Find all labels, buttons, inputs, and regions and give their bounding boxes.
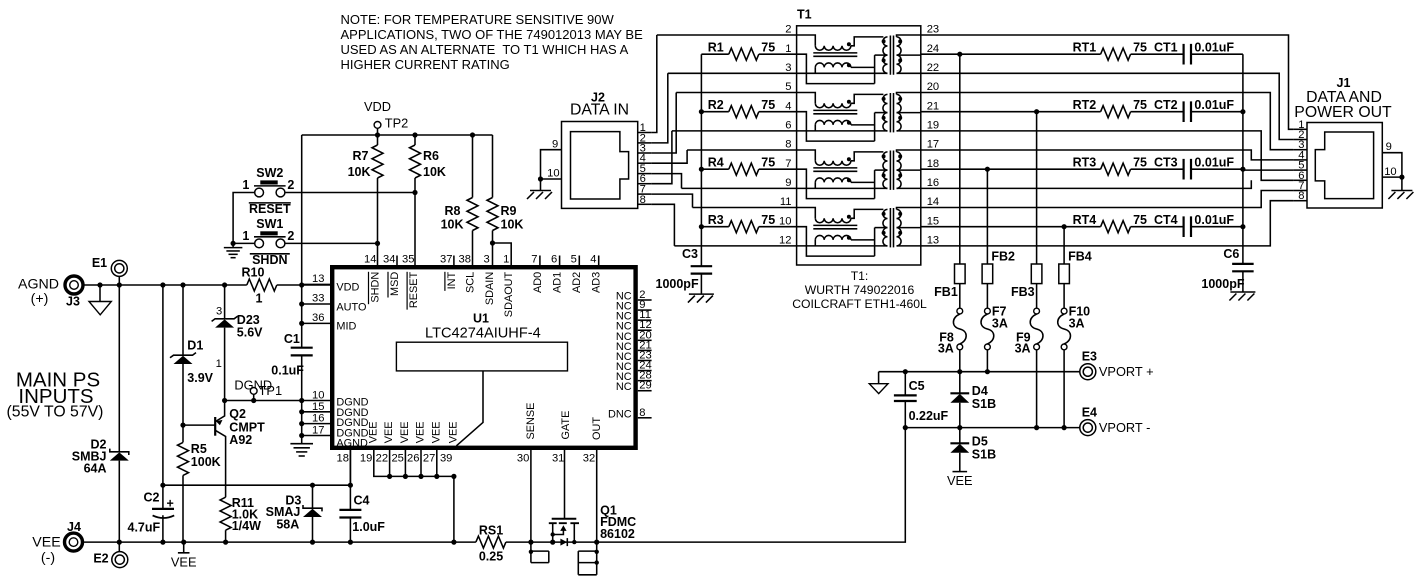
terminal E3 VPORT+ xyxy=(1080,364,1096,380)
svg-text:16: 16 xyxy=(312,413,324,425)
svg-text:1: 1 xyxy=(256,292,263,306)
svg-text:GATE: GATE xyxy=(560,411,572,440)
svg-text:17: 17 xyxy=(927,139,939,151)
svg-text:58A: 58A xyxy=(276,518,299,532)
svg-text:AGND: AGND xyxy=(18,277,59,293)
svg-text:0.01uF: 0.01uF xyxy=(1194,98,1234,112)
svg-text:0.01uF: 0.01uF xyxy=(1194,156,1234,170)
svg-text:1000pF: 1000pF xyxy=(656,277,699,291)
svg-text:18: 18 xyxy=(927,158,939,170)
wire AGND bus xyxy=(83,284,330,286)
ground chassis at C6 xyxy=(1230,291,1255,293)
ferrite bead FB1 xyxy=(959,54,961,308)
svg-text:INT: INT xyxy=(446,271,458,289)
resistor R1 75 xyxy=(701,53,796,55)
svg-text:10K: 10K xyxy=(348,165,371,179)
svg-text:0.01uF: 0.01uF xyxy=(1194,41,1234,55)
svg-text:SHDN: SHDN xyxy=(252,253,287,267)
svg-text:R6: R6 xyxy=(423,149,439,163)
svg-text:R1: R1 xyxy=(708,41,724,55)
wire R9 to SDAOUT pin1 xyxy=(493,243,512,265)
wire J2 pin2 to T1 pin3 row xyxy=(651,73,796,143)
switch SW1 SHDN xyxy=(255,239,264,248)
svg-text:AGND: AGND xyxy=(336,438,368,450)
capacitor C1 xyxy=(301,323,303,400)
svg-text:15: 15 xyxy=(312,401,324,413)
svg-text:5: 5 xyxy=(571,254,577,266)
svg-text:U1: U1 xyxy=(473,312,489,326)
svg-text:D5: D5 xyxy=(972,434,988,448)
svg-text:POWER OUT: POWER OUT xyxy=(1294,104,1392,121)
resistor R5 xyxy=(182,425,184,542)
svg-text:10K: 10K xyxy=(423,165,446,179)
svg-text:12: 12 xyxy=(779,235,791,247)
svg-text:C3: C3 xyxy=(682,247,698,261)
svg-text:21: 21 xyxy=(927,100,939,112)
svg-text:S1B: S1B xyxy=(972,397,996,411)
svg-text:AD0: AD0 xyxy=(532,272,544,293)
svg-text:6: 6 xyxy=(551,254,557,266)
wire pin18 to C4 node xyxy=(349,450,351,485)
svg-text:FB1: FB1 xyxy=(934,285,958,299)
Q1 source pins bracket xyxy=(531,542,549,563)
svg-text:75: 75 xyxy=(761,41,775,55)
svg-text:17: 17 xyxy=(312,425,324,437)
svg-text:SDAOUT: SDAOUT xyxy=(503,271,515,317)
svg-text:11: 11 xyxy=(780,196,792,208)
svg-text:RT4: RT4 xyxy=(1073,213,1097,227)
connector J3 AGND input xyxy=(65,276,83,294)
svg-text:19: 19 xyxy=(360,453,372,465)
svg-text:38: 38 xyxy=(459,254,471,266)
ic U1 left pins DGND AGND xyxy=(302,400,330,402)
svg-text:C5: C5 xyxy=(909,379,925,393)
resistor RT2 75 xyxy=(921,111,1184,113)
svg-text:9: 9 xyxy=(785,177,791,189)
connector J2 pins 9 10 shield xyxy=(541,150,562,190)
svg-text:VEE: VEE xyxy=(415,422,427,444)
svg-text:10: 10 xyxy=(547,168,559,180)
svg-text:3A: 3A xyxy=(1015,341,1031,355)
svg-text:1: 1 xyxy=(242,178,249,192)
svg-text:SCL: SCL xyxy=(465,272,477,293)
svg-text:TP1: TP1 xyxy=(259,383,282,398)
connector J1 pins 9 10 shield xyxy=(1382,153,1402,191)
svg-text:MSD: MSD xyxy=(389,272,401,296)
svg-text:7: 7 xyxy=(531,254,537,266)
svg-text:1000pF: 1000pF xyxy=(1201,277,1244,291)
wire J2 pin6 to T1 pin6 row xyxy=(651,131,796,184)
terminal E1 xyxy=(111,260,127,276)
svg-text:C2: C2 xyxy=(144,491,160,505)
svg-text:0.25: 0.25 xyxy=(479,549,503,563)
svg-text:33: 33 xyxy=(312,293,324,305)
svg-text:C6: C6 xyxy=(1223,247,1239,261)
svg-text:6: 6 xyxy=(785,120,791,132)
ferrite bead FB3 xyxy=(1036,112,1038,309)
resistor R3 75 xyxy=(701,226,796,228)
transformer T1 winding unit 2 xyxy=(797,93,921,142)
resistor R2 75 xyxy=(701,111,796,113)
diode D2 TVS xyxy=(118,285,120,542)
wire CT3 row to J1 pin5 xyxy=(1243,169,1294,171)
resistor R9 10K xyxy=(492,135,494,265)
svg-text:RESET: RESET xyxy=(249,202,291,216)
resistor R4 75 xyxy=(701,168,796,170)
diode D1 zener xyxy=(182,285,184,425)
svg-text:(55V TO 57V): (55V TO 57V) xyxy=(7,404,104,421)
wire VEE bus xyxy=(83,541,553,543)
svg-text:23: 23 xyxy=(927,24,939,36)
svg-text:RS1: RS1 xyxy=(479,524,503,538)
svg-text:R4: R4 xyxy=(708,156,724,170)
body diode of Q1 xyxy=(553,541,597,543)
svg-text:SW2: SW2 xyxy=(256,166,283,180)
capacitor CT1 0.01uF xyxy=(1184,44,1191,65)
wire J2 pin5 to T1 pin9 row xyxy=(651,174,796,189)
resistor R6 10K xyxy=(414,135,416,265)
svg-text:5: 5 xyxy=(785,81,791,93)
svg-text:SHDN: SHDN xyxy=(369,272,381,303)
svg-text:R9: R9 xyxy=(501,204,517,218)
svg-text:1.0uF: 1.0uF xyxy=(352,520,385,534)
wire SW2 pin2 to R6 xyxy=(285,192,415,194)
resistor R8 10K xyxy=(472,135,474,265)
svg-text:CT4: CT4 xyxy=(1154,213,1178,227)
svg-text:USED AS AN ALTERNATE TO T1 WH: USED AS AN ALTERNATE TO T1 WHICH HAS A xyxy=(341,42,629,57)
svg-text:39: 39 xyxy=(440,453,452,465)
svg-text:75: 75 xyxy=(1133,213,1147,227)
svg-text:NC: NC xyxy=(616,381,632,393)
ferrite bead FB4 xyxy=(1063,227,1065,309)
wire SW pin1 common xyxy=(233,193,255,244)
wire pin30 SENSE xyxy=(530,450,532,542)
svg-text:VDD: VDD xyxy=(364,99,391,114)
svg-text:Q2: Q2 xyxy=(229,407,246,421)
svg-text:AD1: AD1 xyxy=(552,272,564,293)
svg-text:3: 3 xyxy=(483,254,489,266)
wire T1 right rows to J1 xyxy=(921,35,1294,129)
resistor R10 xyxy=(247,279,277,291)
svg-text:13: 13 xyxy=(927,235,939,247)
svg-text:2: 2 xyxy=(287,178,294,192)
ferrite bead FB2 xyxy=(986,169,988,308)
svg-text:4: 4 xyxy=(785,100,791,112)
svg-text:75: 75 xyxy=(761,213,775,227)
svg-text:1: 1 xyxy=(242,229,249,243)
svg-text:SENSE: SENSE xyxy=(525,403,537,440)
svg-text:7: 7 xyxy=(785,158,791,170)
svg-text:(-): (-) xyxy=(41,550,55,566)
transistor Q1 MOSFET xyxy=(552,518,577,520)
power VEE symbol xyxy=(178,542,190,553)
wire J2 pin7 to T1 pin11 row xyxy=(651,194,796,207)
svg-text:25: 25 xyxy=(391,453,403,465)
svg-text:14: 14 xyxy=(364,254,376,266)
svg-text:3: 3 xyxy=(216,305,222,317)
svg-text:RESET: RESET xyxy=(408,271,420,308)
ground chassis at C3 xyxy=(689,293,714,295)
svg-text:20: 20 xyxy=(927,81,939,93)
capacitor CT4 0.01uF xyxy=(1184,216,1191,237)
svg-text:VEE: VEE xyxy=(447,422,459,444)
svg-text:NOTE: FOR TEMPERATURE SENSITIV: NOTE: FOR TEMPERATURE SENSITIVE 90W xyxy=(341,12,615,27)
svg-text:HIGHER CURRENT RATING: HIGHER CURRENT RATING xyxy=(341,57,510,72)
svg-text:31: 31 xyxy=(552,453,564,465)
svg-text:3A: 3A xyxy=(992,316,1008,330)
capacitor C4 xyxy=(349,450,351,542)
capacitor CT3 0.01uF xyxy=(1184,159,1191,180)
svg-text:86102: 86102 xyxy=(600,527,635,541)
svg-text:R7: R7 xyxy=(353,149,369,163)
svg-text:10: 10 xyxy=(779,215,791,227)
ground at U1 AGND xyxy=(290,443,313,445)
capacitor CT2 0.01uF xyxy=(1184,101,1191,122)
svg-text:AD2: AD2 xyxy=(571,272,583,293)
wire VEE pins to bus xyxy=(374,450,454,542)
svg-text:2: 2 xyxy=(287,229,294,243)
switch SW2 RESET xyxy=(255,188,264,197)
svg-text:APPLICATIONS, TWO OF THE 74901: APPLICATIONS, TWO OF THE 749012013 MAY B… xyxy=(341,27,644,42)
svg-text:E4: E4 xyxy=(1082,406,1097,420)
svg-text:C4: C4 xyxy=(354,493,370,507)
svg-text:16: 16 xyxy=(927,177,939,189)
wire VDD bus xyxy=(302,135,493,285)
svg-text:24: 24 xyxy=(927,43,939,55)
Q1 drain pins bracket xyxy=(578,542,596,575)
svg-text:13: 13 xyxy=(312,273,324,285)
svg-text:VPORT -: VPORT - xyxy=(1099,420,1150,435)
svg-text:30: 30 xyxy=(517,453,529,465)
power VEE at D5 xyxy=(953,471,968,473)
ground agnd triangle at C5 xyxy=(869,384,888,394)
svg-text:CT1: CT1 xyxy=(1154,41,1178,55)
ic U1 LTC4274AIUHF-4 body xyxy=(332,267,635,448)
svg-text:18: 18 xyxy=(337,453,349,465)
svg-text:10K: 10K xyxy=(501,218,524,232)
fuse F8 3A xyxy=(957,308,963,314)
svg-text:R5: R5 xyxy=(191,442,207,456)
svg-text:E2: E2 xyxy=(93,552,108,566)
svg-text:OUT: OUT xyxy=(591,417,603,440)
svg-text:8: 8 xyxy=(639,407,645,419)
svg-text:A92: A92 xyxy=(229,433,252,447)
wire common termination vertical xyxy=(700,54,702,266)
svg-text:9: 9 xyxy=(1386,141,1392,153)
ic U1 right pins NC DNC xyxy=(638,299,652,301)
svg-text:0.01uF: 0.01uF xyxy=(1194,213,1234,227)
svg-text:J3: J3 xyxy=(66,295,80,309)
svg-text:19: 19 xyxy=(927,120,939,132)
svg-text:J1: J1 xyxy=(1337,76,1351,90)
svg-text:75: 75 xyxy=(1133,156,1147,170)
svg-text:75: 75 xyxy=(1133,98,1147,112)
svg-text:+: + xyxy=(167,497,174,511)
svg-text:35: 35 xyxy=(402,254,414,266)
svg-text:VEE: VEE xyxy=(171,554,197,569)
svg-text:14: 14 xyxy=(927,196,939,208)
resistor R7 10K xyxy=(377,135,379,265)
svg-text:J4: J4 xyxy=(67,520,81,534)
svg-text:0.1uF: 0.1uF xyxy=(271,364,304,378)
diode D23 zener xyxy=(224,285,226,401)
svg-text:VEE: VEE xyxy=(367,422,379,444)
wire mid bus xyxy=(163,484,351,486)
svg-text:1: 1 xyxy=(503,254,509,266)
svg-text:DNC: DNC xyxy=(608,408,632,420)
svg-text:34: 34 xyxy=(383,254,395,266)
svg-text:D4: D4 xyxy=(972,384,988,398)
ground at SW1 xyxy=(232,243,234,247)
svg-text:26: 26 xyxy=(407,453,419,465)
svg-text:(+): (+) xyxy=(31,291,49,307)
svg-text:SW1: SW1 xyxy=(256,217,283,231)
svg-text:75: 75 xyxy=(1133,41,1147,55)
svg-text:36: 36 xyxy=(312,312,324,324)
fuse F10 3A xyxy=(1061,308,1067,314)
svg-text:22: 22 xyxy=(927,62,939,74)
svg-text:1/4W: 1/4W xyxy=(232,519,261,533)
svg-text:AUTO: AUTO xyxy=(336,301,366,313)
svg-text:4: 4 xyxy=(590,254,596,266)
svg-text:DATA IN: DATA IN xyxy=(570,102,629,119)
svg-text:3.9V: 3.9V xyxy=(187,371,213,385)
wire OUT node to VPORT- xyxy=(597,428,906,542)
capacitor C6 1000pF xyxy=(1232,264,1254,271)
svg-text:WURTH 749022016: WURTH 749022016 xyxy=(805,283,915,297)
svg-text:VEE: VEE xyxy=(32,535,60,551)
fuse F9 3A xyxy=(1034,308,1040,314)
svg-text:SDAIN: SDAIN xyxy=(484,272,496,305)
svg-text:15: 15 xyxy=(927,215,939,227)
transformer T1 winding unit 3 xyxy=(797,150,921,199)
svg-text:1: 1 xyxy=(785,43,791,55)
ic U1 exposed pad xyxy=(396,342,567,371)
svg-text:10K: 10K xyxy=(441,218,464,232)
connector J4 VEE input xyxy=(65,533,83,551)
svg-text:VEE: VEE xyxy=(430,422,442,444)
svg-text:RT3: RT3 xyxy=(1073,156,1097,170)
svg-text:RT2: RT2 xyxy=(1073,98,1097,112)
terminal E2 xyxy=(112,552,128,568)
svg-text:TP2: TP2 xyxy=(385,116,408,131)
resistor RT4 75 xyxy=(921,226,1184,228)
svg-text:1: 1 xyxy=(216,358,222,370)
svg-text:FB3: FB3 xyxy=(1011,285,1035,299)
transistor Q2 PNP xyxy=(216,401,226,498)
svg-text:FB4: FB4 xyxy=(1068,249,1092,263)
svg-text:VEE: VEE xyxy=(383,422,395,444)
wire J2 pin3 to T1 pin5 row xyxy=(651,93,796,154)
svg-text:VDD: VDD xyxy=(336,282,359,294)
wire J2 pin8 to T1 pin12 row xyxy=(651,204,796,246)
svg-text:75: 75 xyxy=(761,156,775,170)
svg-text:4.7uF: 4.7uF xyxy=(128,521,161,535)
svg-text:10: 10 xyxy=(1384,166,1396,178)
svg-text:32: 32 xyxy=(583,453,595,465)
ground agnd triangle xyxy=(99,285,101,302)
svg-text:CT2: CT2 xyxy=(1154,98,1178,112)
resistor R11 xyxy=(225,530,227,542)
svg-text:FB2: FB2 xyxy=(991,249,1015,263)
svg-text:VEE: VEE xyxy=(399,422,411,444)
svg-text:3: 3 xyxy=(785,62,791,74)
svg-text:22: 22 xyxy=(376,453,388,465)
svg-text:8: 8 xyxy=(785,139,791,151)
transformer T1 winding unit 1 xyxy=(797,35,921,84)
svg-text:5.6V: 5.6V xyxy=(237,325,263,339)
wire pin32 OUT xyxy=(596,450,598,542)
svg-text:E3: E3 xyxy=(1082,350,1097,364)
wire pin31 GATE xyxy=(564,450,566,518)
svg-text:MID: MID xyxy=(336,321,356,333)
wire J2 pin1 to T1 pin2 row xyxy=(651,35,796,133)
resistor RS1 0.25 xyxy=(476,536,506,548)
svg-text:27: 27 xyxy=(423,453,435,465)
svg-text:29: 29 xyxy=(639,380,651,392)
diode D5 S1B xyxy=(959,428,961,472)
svg-text:D1: D1 xyxy=(187,338,203,352)
svg-text:R2: R2 xyxy=(708,98,724,112)
svg-text:VPORT +: VPORT + xyxy=(1099,364,1154,379)
svg-text:3A: 3A xyxy=(938,341,954,355)
svg-text:37: 37 xyxy=(440,254,452,266)
svg-text:10: 10 xyxy=(312,390,324,402)
svg-text:VEE: VEE xyxy=(947,473,973,488)
svg-text:9: 9 xyxy=(552,139,558,151)
transformer T1 winding unit 4 xyxy=(797,208,921,257)
svg-text:AD3: AD3 xyxy=(591,272,603,293)
svg-text:T1: T1 xyxy=(797,7,812,21)
svg-text:3A: 3A xyxy=(1069,316,1085,330)
svg-text:75: 75 xyxy=(761,98,775,112)
svg-text:8: 8 xyxy=(1298,190,1304,202)
svg-text:100K: 100K xyxy=(191,455,221,469)
terminal E4 VPORT- xyxy=(1080,420,1096,436)
resistor RT3 75 xyxy=(921,168,1184,170)
svg-text:LTC4274AIUHF-4: LTC4274AIUHF-4 xyxy=(425,326,541,342)
svg-text:8: 8 xyxy=(640,194,646,206)
diode D3 TVS xyxy=(312,485,314,542)
wire SW1 pin2 to R7 xyxy=(285,242,378,244)
svg-text:R10: R10 xyxy=(242,265,265,279)
wire VPORT+ line xyxy=(879,372,1080,384)
diode D4 S1B xyxy=(959,372,961,428)
resistor RT1 75 xyxy=(921,53,1184,55)
ic U1 left pins VDD AUTO MID xyxy=(302,283,330,285)
svg-text:E1: E1 xyxy=(92,256,107,270)
capacitor C2 xyxy=(162,285,164,542)
wire VPORT- line xyxy=(905,427,1080,429)
capacitor C5 0.22uF xyxy=(904,372,906,428)
svg-text:RT1: RT1 xyxy=(1073,41,1097,55)
fuse F7 3A xyxy=(985,308,991,314)
svg-text:64A: 64A xyxy=(84,462,107,476)
svg-text:0.22uF: 0.22uF xyxy=(909,409,949,423)
wire CT bus to C6 xyxy=(1242,54,1244,264)
svg-text:CT3: CT3 xyxy=(1154,156,1178,170)
svg-text:T1:: T1: xyxy=(851,269,869,283)
svg-text:R3: R3 xyxy=(708,213,724,227)
wire J2 pin4 to T1 pin8 row xyxy=(651,150,796,163)
svg-text:COILCRAFT ETH1-460L: COILCRAFT ETH1-460L xyxy=(792,297,927,311)
svg-text:R8: R8 xyxy=(445,204,461,218)
capacitor C3 1000pF xyxy=(700,274,702,294)
svg-text:C1: C1 xyxy=(284,332,300,346)
svg-text:S1B: S1B xyxy=(972,448,996,462)
svg-text:2: 2 xyxy=(785,24,791,36)
